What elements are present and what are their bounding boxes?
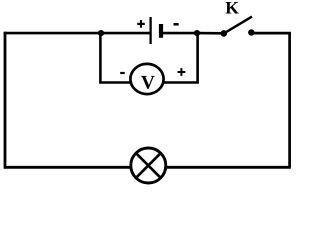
wire switch right terminal to top-right corner and down right side — [251, 33, 289, 167]
wire bottom right from corner to lamp — [166, 166, 291, 169]
wire bottom left from lamp to corner — [4, 166, 131, 169]
switch label K — [226, 2, 239, 13]
wire node B to switch left terminal — [197, 32, 224, 35]
battery label + — [137, 20, 145, 28]
wire top from left corner to battery positive plate — [4, 32, 151, 35]
voltmeter label - — [120, 72, 125, 74]
wire battery negative plate to node B — [161, 32, 198, 35]
voltmeter V — [130, 64, 163, 94]
wire left side vertical — [4, 32, 7, 169]
node A junction dot — [98, 30, 104, 36]
battery cell — [151, 17, 161, 44]
wire voltmeter plus terminal to node B — [163, 33, 197, 82]
voltmeter label + — [178, 68, 186, 76]
battery label - — [174, 23, 179, 26]
switch K — [221, 17, 255, 37]
wire node A down and right to voltmeter minus terminal — [100, 33, 131, 82]
lamp — [131, 148, 166, 183]
node B junction dot — [194, 30, 200, 36]
